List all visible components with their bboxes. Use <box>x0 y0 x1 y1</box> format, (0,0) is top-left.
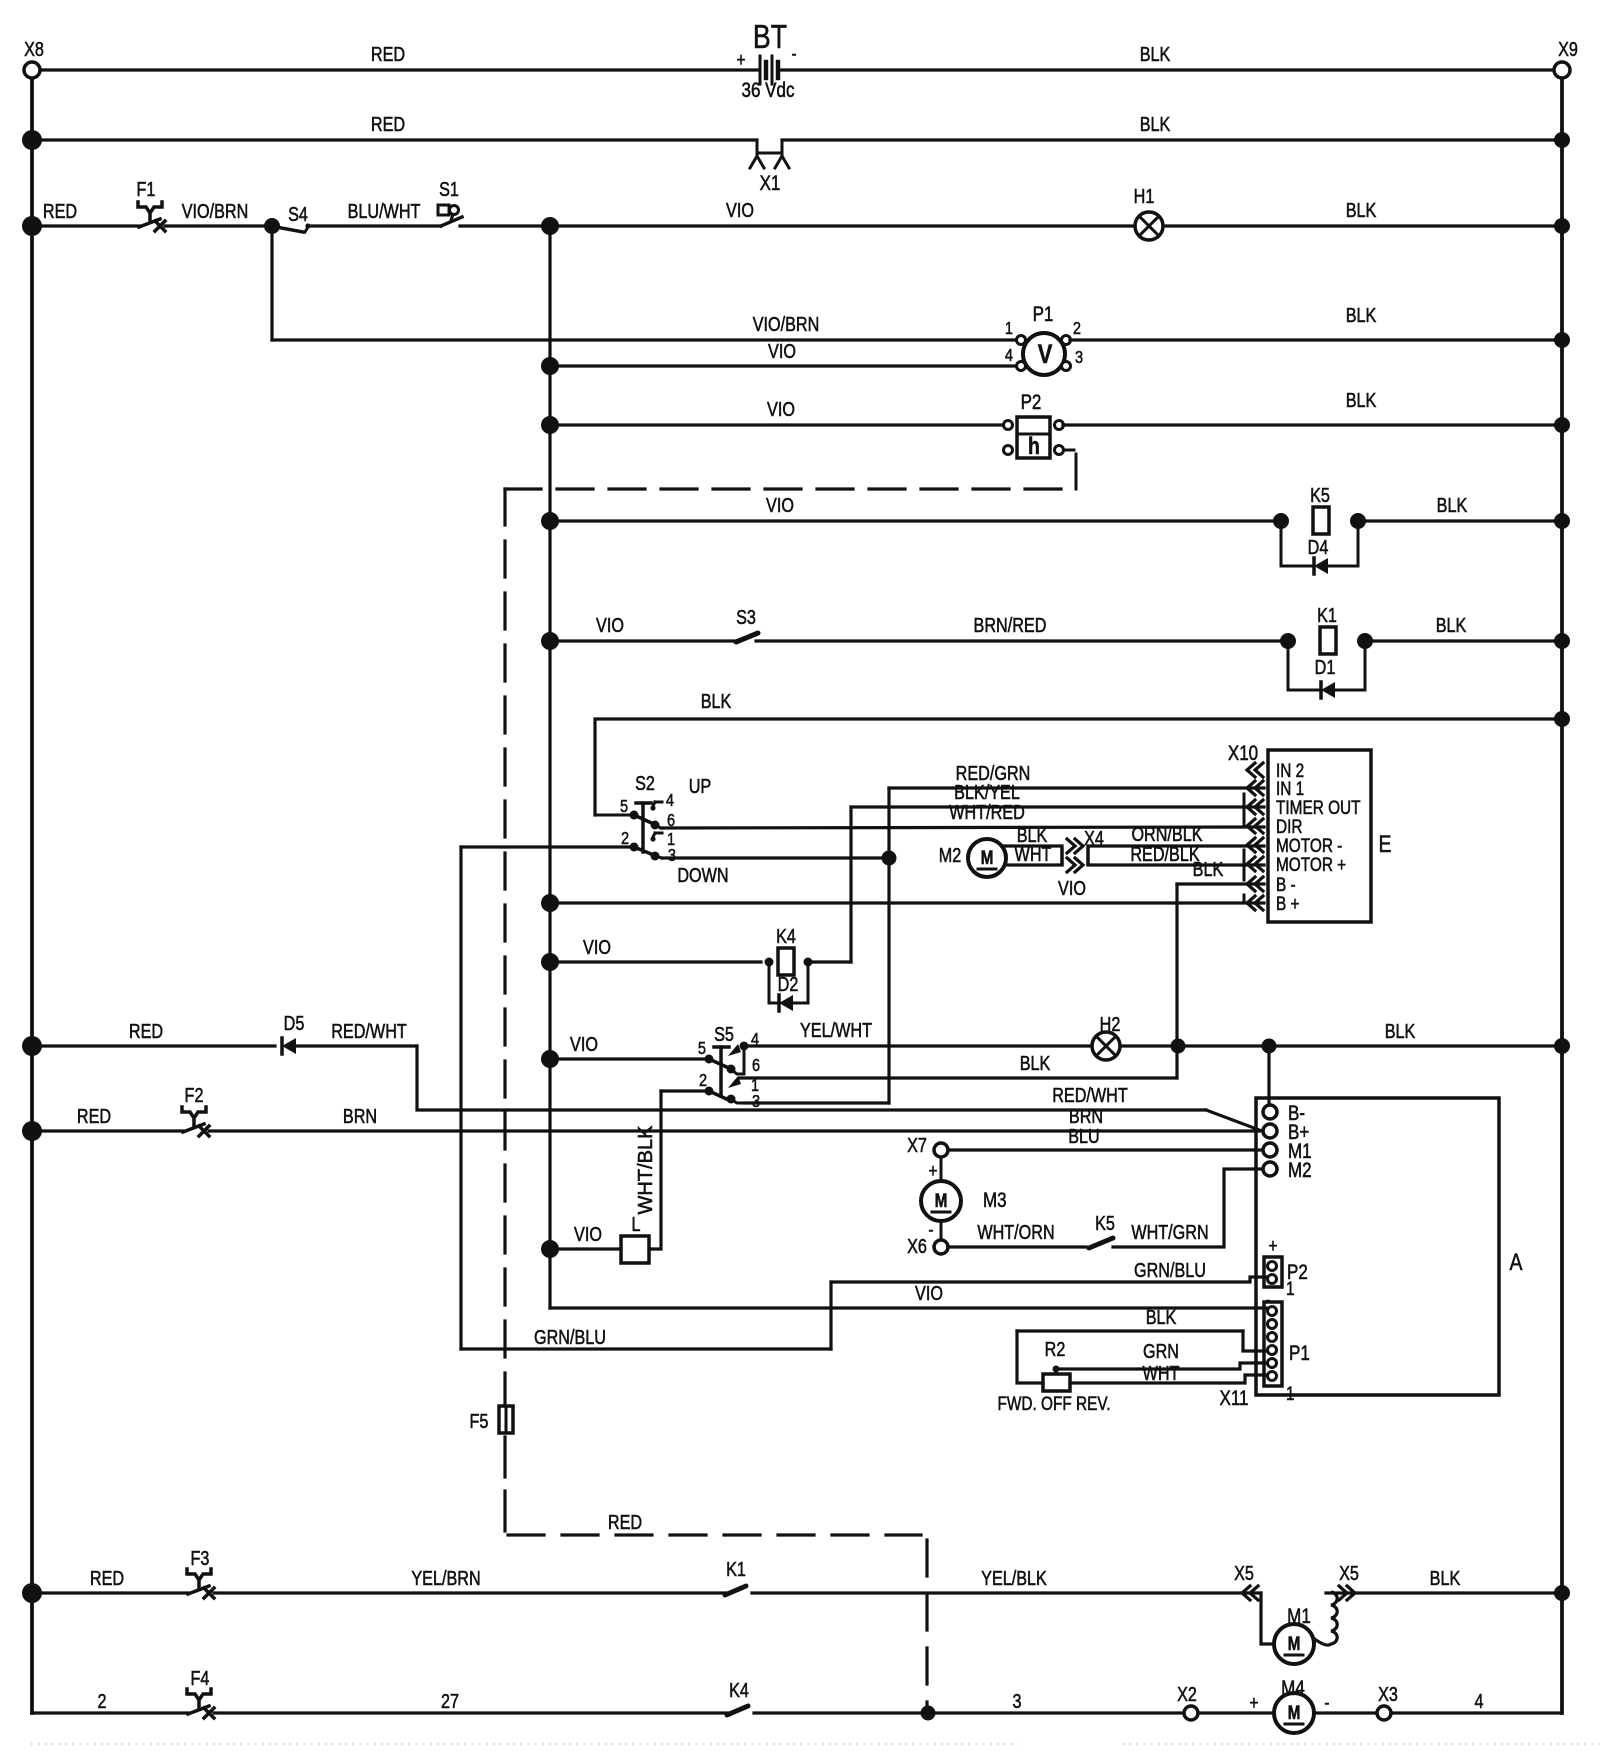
svg-text:RED/WHT: RED/WHT <box>331 1020 407 1042</box>
wire dashed RED horizontal <box>508 1511 921 1535</box>
wire BLU/WHT S4 to S1 <box>310 200 441 226</box>
fuse F2 <box>182 1084 209 1136</box>
wire S5 pin2 feed <box>661 1089 705 1092</box>
svg-text:1: 1 <box>1005 319 1013 339</box>
wire VIO to P1 plug <box>550 1282 1266 1308</box>
wire VIO to P1 pin4 <box>541 340 1017 375</box>
motor M4 <box>1274 1677 1314 1733</box>
svg-text:D2: D2 <box>778 973 799 995</box>
svg-text:YEL/WHT: YEL/WHT <box>800 1019 872 1041</box>
svg-text:K1: K1 <box>1317 604 1337 626</box>
motor M2 <box>939 839 1006 877</box>
svg-text:RED: RED <box>371 43 405 65</box>
relay contact K1 <box>725 1558 746 1595</box>
svg-text:RED: RED <box>371 113 405 135</box>
svg-text:WHT/ORN: WHT/ORN <box>977 1221 1054 1243</box>
wire BLK P1 pin2 to rail <box>1070 304 1570 348</box>
svg-text:WHT: WHT <box>1143 1362 1180 1384</box>
switch S5 <box>698 1023 760 1111</box>
wire VIO to B+ <box>541 877 1264 912</box>
wire BRN/RED S3 to K1 <box>756 614 1280 641</box>
wire VIO to K5 coil <box>541 494 1273 530</box>
fuse F1 <box>137 178 165 231</box>
svg-text:27: 27 <box>441 1690 459 1712</box>
svg-text:+: + <box>1269 1234 1278 1256</box>
connector X5 left <box>1234 1562 1258 1600</box>
svg-text:2: 2 <box>1073 319 1081 339</box>
wire WHT/GRN K5 to M2 pin <box>1113 1169 1263 1247</box>
wire RED/WHT to controller B+ <box>417 1046 1206 1110</box>
svg-text:BLK: BLK <box>1430 1567 1461 1589</box>
wire VIO S1 to H1 <box>460 199 1135 235</box>
svg-text:H2: H2 <box>1100 1013 1121 1035</box>
label FWD OFF REV <box>998 1392 1111 1414</box>
svg-text:2: 2 <box>699 1071 707 1091</box>
svg-text:X7: X7 <box>907 1134 927 1156</box>
wire VIO to L <box>541 1223 621 1258</box>
svg-text:M: M <box>1288 1632 1301 1654</box>
svg-text:4: 4 <box>1474 1690 1483 1712</box>
svg-text:VIO/BRN: VIO/BRN <box>182 200 249 222</box>
svg-text:VIO: VIO <box>767 398 795 420</box>
wire BLK P2 to rail <box>1063 389 1570 433</box>
svg-text:YEL/BLK: YEL/BLK <box>981 1567 1047 1589</box>
svg-text:S4: S4 <box>288 203 308 225</box>
svg-text:X11: X11 <box>1220 1387 1249 1410</box>
svg-text:F1: F1 <box>137 178 156 200</box>
relay coil K4 <box>765 925 813 975</box>
svg-text:3: 3 <box>1012 1690 1021 1712</box>
wire GRN wiper to P1 pin5 <box>1056 1340 1266 1369</box>
svg-text:VIO: VIO <box>570 1033 598 1055</box>
switch S2 <box>595 772 729 886</box>
wire BRN F2 to controller B+ <box>209 1105 1262 1131</box>
diode D4 <box>1281 521 1358 574</box>
svg-text:4: 4 <box>666 791 674 811</box>
wire BLK S5 pin1 <box>740 1052 1177 1078</box>
svg-text:X5: X5 <box>1234 1562 1254 1584</box>
svg-text:-: - <box>1324 1691 1329 1713</box>
scan artifact <box>30 1743 1600 1745</box>
svg-text:BLK: BLK <box>1146 1306 1177 1328</box>
svg-text:+: + <box>737 48 746 70</box>
svg-text:K5: K5 <box>1095 1212 1115 1234</box>
wire RED X8 to battery <box>40 43 757 70</box>
wire dashed P2 minus tail <box>505 450 1076 489</box>
connector X4 <box>1062 827 1104 872</box>
wire BLK H2 to rail <box>1120 1020 1570 1054</box>
wire 4 X3 to rail <box>1391 1690 1562 1713</box>
svg-text:VIO/BRN: VIO/BRN <box>753 313 820 335</box>
svg-text:BLK/YEL: BLK/YEL <box>954 781 1020 803</box>
svg-text:BLK: BLK <box>1140 43 1171 65</box>
wire RED/BLK X4 to MOTOR+ <box>1088 843 1264 865</box>
svg-text:M4: M4 <box>1281 1677 1305 1700</box>
svg-text:BLK: BLK <box>1140 113 1171 135</box>
svg-text:VIO: VIO <box>766 494 794 516</box>
terminal X9 <box>1554 38 1578 78</box>
svg-text:h: h <box>1028 432 1040 459</box>
relay contact K4 <box>727 1679 749 1715</box>
wire YEL/WHT S5 to H2 <box>744 1019 1092 1046</box>
lamp H2 <box>1092 1013 1120 1060</box>
svg-text:D4: D4 <box>1308 536 1329 558</box>
wire vertical S2 S5 common <box>887 788 890 1103</box>
svg-text:2: 2 <box>97 1690 106 1712</box>
wire S2 pin2 feed <box>461 845 630 848</box>
wire BLK step <box>1243 1331 1266 1351</box>
wire BLK/YEL to TIMER OUT <box>851 781 1264 807</box>
label X11 <box>1220 1387 1249 1410</box>
svg-text:BLK: BLK <box>1436 614 1467 636</box>
connector P2 plug <box>1264 1234 1308 1310</box>
switch S1 <box>438 178 462 226</box>
svg-text:1: 1 <box>1286 1277 1295 1299</box>
svg-text:RED: RED <box>129 1020 163 1042</box>
svg-text:X3: X3 <box>1378 1683 1398 1705</box>
svg-text:R2: R2 <box>1045 1338 1066 1360</box>
svg-text:5: 5 <box>620 797 628 817</box>
svg-text:BLU: BLU <box>1068 1125 1100 1147</box>
wire dashed vertical to K4 row <box>925 1540 928 1713</box>
field coil M1 <box>1312 1592 1337 1645</box>
svg-text:BLK: BLK <box>1437 494 1468 516</box>
solenoid L <box>621 1213 649 1263</box>
svg-text:L: L <box>631 1213 640 1235</box>
wire RED/WHT diagonal <box>1206 1110 1262 1131</box>
controller A box <box>1256 1098 1523 1395</box>
svg-text:VIO: VIO <box>1058 877 1086 899</box>
svg-text:BLK: BLK <box>1346 389 1377 411</box>
terminal X7 <box>907 1134 948 1157</box>
wire RED rail to F3 <box>22 1567 188 1603</box>
wire BLK to B- <box>1177 858 1264 884</box>
wire pot left leg <box>1017 1331 1043 1383</box>
wire left rail X8 bus <box>30 78 34 1713</box>
wire H2 node to B- pin <box>1267 1046 1270 1105</box>
wire VIO/BRN F1 to S4 <box>165 200 268 226</box>
wire RED row2 left <box>22 113 757 150</box>
svg-text:VIO: VIO <box>726 199 754 221</box>
wire WHT/ORN X6 to K5 contact <box>948 1221 1086 1247</box>
svg-text:E: E <box>1379 830 1392 857</box>
svg-text:M2: M2 <box>1288 1159 1312 1182</box>
svg-text:4: 4 <box>1005 346 1013 366</box>
wire BLK S2 pin5 feed <box>595 690 1570 815</box>
wire X2 to M4 <box>1198 1691 1274 1713</box>
wire BLK H1 to rail <box>1163 199 1570 234</box>
wire YEL/BLK K1 to X5 <box>752 1567 1261 1593</box>
wire 2 rail to F4 <box>32 1690 188 1713</box>
svg-text:BLU/WHT: BLU/WHT <box>348 200 421 222</box>
fuse F3 <box>187 1547 214 1598</box>
svg-text:MOTOR +: MOTOR + <box>1276 853 1346 875</box>
svg-text:P1: P1 <box>1033 303 1054 326</box>
wire GRN/BLU lower <box>461 1326 831 1349</box>
svg-text:BRN/RED: BRN/RED <box>974 614 1047 636</box>
svg-text:RED/BLK: RED/BLK <box>1130 843 1199 865</box>
svg-text:WHT/BLK: WHT/BLK <box>635 1125 657 1215</box>
terminal X3 <box>1377 1683 1398 1720</box>
wire BLK X5 to rail <box>1326 1567 1570 1601</box>
diode D1 <box>1288 641 1365 698</box>
svg-text:WHT/RED: WHT/RED <box>949 801 1025 823</box>
wire VIO/BRN S4 branch down <box>270 226 273 340</box>
wire VIO to K4 coil <box>541 936 761 971</box>
svg-text:UP: UP <box>689 775 711 797</box>
wire WHT/BLK L to S5 pin2 <box>635 1091 661 1249</box>
svg-text:VIO: VIO <box>583 936 611 958</box>
svg-text:BLK: BLK <box>1385 1020 1416 1042</box>
svg-text:BLK: BLK <box>1346 199 1377 221</box>
svg-text:3: 3 <box>1075 348 1083 368</box>
wire YEL/BRN F3 to K1 contact <box>214 1567 728 1593</box>
wire RED/WHT D5 right <box>296 1020 417 1046</box>
svg-text:X1: X1 <box>760 172 781 195</box>
svg-text:H1: H1 <box>1134 185 1155 207</box>
svg-text:X6: X6 <box>907 1235 927 1257</box>
connector X5 right <box>1339 1562 1359 1600</box>
svg-text:+: + <box>929 1159 938 1181</box>
svg-text:S3: S3 <box>736 606 756 628</box>
svg-text:36 Vdc: 36 Vdc <box>742 79 795 102</box>
svg-text:A: A <box>1510 1248 1523 1275</box>
wire GRN/BLU vertical <box>459 847 462 1349</box>
svg-text:M1: M1 <box>1287 1605 1311 1628</box>
svg-text:F5: F5 <box>470 1410 489 1432</box>
connector P1 plug <box>1264 1302 1310 1404</box>
wire BLK K1 to rail <box>1373 614 1570 649</box>
wire 27 F4 to K4 contact <box>214 1690 730 1713</box>
terminal X6 <box>907 1235 948 1257</box>
connector X10 pins <box>1244 759 1361 914</box>
svg-text:-: - <box>928 1218 933 1240</box>
wire WHT M2 to X4 <box>1005 843 1062 865</box>
battery BT 36 Vdc <box>737 19 797 102</box>
controller A pins B- B+ M1 M2 <box>1263 1102 1312 1182</box>
svg-text:P1: P1 <box>1289 1342 1310 1365</box>
svg-text:M3: M3 <box>983 1189 1007 1212</box>
relay coil K5 <box>1273 484 1366 534</box>
svg-text:X2: X2 <box>1177 1683 1197 1705</box>
wire VIO/BRN to P1 pin1 <box>272 313 1017 340</box>
svg-text:VIO: VIO <box>574 1223 602 1245</box>
relay coil K1 <box>1280 604 1373 654</box>
wire BLU X7 to M1 pin <box>949 1125 1262 1150</box>
svg-text:5: 5 <box>698 1039 706 1059</box>
svg-text:M: M <box>981 846 994 868</box>
svg-text:P2: P2 <box>1021 391 1042 414</box>
wire GRN/BLU riser <box>829 1282 832 1349</box>
wire BLK pot to P1 pin4 <box>1017 1306 1243 1331</box>
wire WHT/RED S2 pin6 to DIR <box>661 801 1264 828</box>
svg-text:WHT: WHT <box>1015 843 1052 865</box>
svg-text:M2: M2 <box>939 844 961 866</box>
hour meter P2 <box>1004 391 1064 459</box>
wire BLK row2 right <box>782 113 1570 148</box>
wire GRN/BLU to P2 plug <box>831 1259 1266 1282</box>
wire BLK K5 to rail <box>1366 494 1570 529</box>
svg-text:F3: F3 <box>191 1547 210 1569</box>
svg-text:6: 6 <box>752 1056 760 1076</box>
wire VIO to P2 <box>541 398 1004 434</box>
svg-text:X10: X10 <box>1228 742 1258 765</box>
wire WHT pot to P1 pin6 <box>1070 1362 1266 1384</box>
svg-text:RED: RED <box>90 1567 124 1589</box>
svg-text:FWD. OFF REV.: FWD. OFF REV. <box>998 1392 1111 1414</box>
relay contact K5 <box>1089 1212 1115 1248</box>
motor M1 <box>1274 1605 1314 1664</box>
wire S2 pin3 to node <box>662 851 897 866</box>
wire S5 pin3 to common <box>744 1101 889 1104</box>
motor M3 <box>921 1157 1007 1240</box>
terminal X2 <box>1177 1683 1198 1720</box>
wire RED rail to D5 <box>22 1020 275 1056</box>
svg-text:VIO: VIO <box>768 340 796 362</box>
svg-text:VIO: VIO <box>915 1282 943 1304</box>
svg-text:BLK: BLK <box>1193 858 1224 880</box>
svg-text:1: 1 <box>1286 1382 1295 1404</box>
svg-text:K4: K4 <box>776 925 796 947</box>
wire vertical BLK/YEL to K4 <box>849 807 852 962</box>
svg-text:S5: S5 <box>714 1023 734 1045</box>
svg-text:YEL/BRN: YEL/BRN <box>411 1567 480 1589</box>
svg-text:BLK: BLK <box>1020 1052 1051 1074</box>
terminal X8 <box>24 38 44 78</box>
svg-text:M: M <box>935 1189 948 1211</box>
svg-text:D5: D5 <box>284 1012 305 1034</box>
svg-text:D1: D1 <box>1315 656 1336 678</box>
wire BLK battery to X9 <box>781 43 1554 70</box>
wire ORN/BLK X4 to MOTOR- <box>1088 823 1264 846</box>
fuse F4 <box>187 1667 214 1718</box>
wire VIO to S3 <box>541 614 736 650</box>
svg-text:RED/WHT: RED/WHT <box>1052 1084 1128 1106</box>
svg-text:+: + <box>1250 1691 1259 1713</box>
svg-text:RED: RED <box>608 1511 642 1533</box>
svg-text:GRN/BLU: GRN/BLU <box>534 1326 606 1348</box>
svg-text:S1: S1 <box>439 178 459 200</box>
svg-text:F4: F4 <box>191 1667 210 1689</box>
diode D5 <box>282 1012 304 1054</box>
switch S3 <box>736 606 758 642</box>
svg-text:BT: BT <box>753 19 787 55</box>
svg-text:GRN/BLU: GRN/BLU <box>1134 1259 1206 1281</box>
svg-text:3: 3 <box>668 846 676 866</box>
wire RED rail to F1 <box>22 200 139 236</box>
svg-text:BRN: BRN <box>1069 1105 1103 1127</box>
controller E box <box>1228 742 1392 922</box>
svg-text:K1: K1 <box>726 1558 746 1580</box>
wire dashed VIO vertical upper <box>503 489 506 1404</box>
svg-text:-: - <box>791 42 796 64</box>
svg-text:S2: S2 <box>635 772 655 794</box>
connector X1 <box>750 140 789 195</box>
svg-text:DOWN: DOWN <box>677 864 728 886</box>
wire vertical B- to H2 row <box>1175 884 1178 1078</box>
svg-text:X9: X9 <box>1558 38 1578 60</box>
diode D2 <box>769 962 808 1011</box>
svg-text:X5: X5 <box>1339 1562 1359 1584</box>
svg-text:F2: F2 <box>185 1084 204 1106</box>
potentiometer R2 <box>1043 1338 1070 1391</box>
svg-text:V: V <box>1038 340 1053 370</box>
wire X5 to M1 <box>1261 1593 1274 1644</box>
svg-text:B +: B + <box>1276 892 1300 914</box>
wire VIO to S5 <box>541 1033 705 1068</box>
svg-text:WHT/GRN: WHT/GRN <box>1131 1221 1208 1243</box>
svg-text:X8: X8 <box>24 38 44 60</box>
switch S4 <box>264 203 311 234</box>
lamp H1 <box>1134 185 1163 240</box>
svg-text:BLK: BLK <box>701 690 732 712</box>
svg-text:GRN: GRN <box>1143 1340 1179 1362</box>
wire BLK M2 to X4 <box>1003 824 1062 846</box>
wire VIO bus vertical <box>548 226 551 1308</box>
svg-text:VIO: VIO <box>596 614 624 636</box>
svg-text:K4: K4 <box>729 1679 749 1701</box>
fuse F5 <box>470 1406 513 1433</box>
voltmeter P1 <box>1005 303 1083 375</box>
wire RED rail to F2 <box>22 1105 183 1141</box>
wire 3 K4 to X2 <box>754 1690 1184 1720</box>
wire right rail X9 bus <box>1560 78 1564 1713</box>
svg-text:K5: K5 <box>1310 484 1330 506</box>
wire dashed vertical lower <box>503 1433 506 1531</box>
svg-text:BRN: BRN <box>343 1105 377 1127</box>
wire K4 to BLK/YEL vertical <box>812 960 851 963</box>
svg-text:M: M <box>1288 1701 1301 1723</box>
svg-text:BLK: BLK <box>1346 304 1377 326</box>
wire M4 to X3 <box>1314 1691 1377 1713</box>
wire RED/GRN to IN1 <box>889 762 1264 788</box>
svg-text:RED: RED <box>43 200 77 222</box>
svg-text:RED: RED <box>77 1105 111 1127</box>
svg-text:ORN/BLK: ORN/BLK <box>1131 823 1202 845</box>
